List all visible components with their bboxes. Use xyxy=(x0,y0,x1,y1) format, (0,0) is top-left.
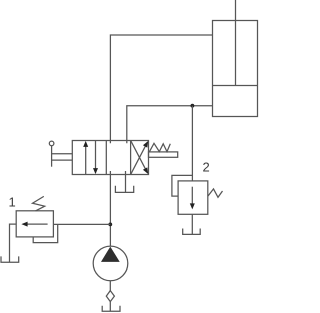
valve left square up arrow xyxy=(85,144,87,174)
relief valve 2 pilot line xyxy=(172,175,193,196)
tank under relief valve 2 xyxy=(183,229,201,235)
relief valve 1 outlet wire xyxy=(10,224,17,262)
tank under pump xyxy=(102,306,120,312)
pump triangle xyxy=(102,248,119,261)
cylinder rod xyxy=(235,0,237,86)
node junction to relief valve 1 xyxy=(108,223,112,227)
relief valve 1 pilot line xyxy=(33,224,58,242)
valve crossed arrows (X) xyxy=(131,145,146,174)
valve divider right xyxy=(130,141,132,175)
filter diamond xyxy=(106,291,114,302)
spring return zigzag xyxy=(150,143,171,151)
cylinder barrel xyxy=(213,21,258,117)
tank under relief valve 1 xyxy=(1,256,19,262)
relief valve 1 spring xyxy=(33,196,45,211)
cylinder piston xyxy=(213,85,258,87)
relief valve 1 arrow xyxy=(25,223,48,225)
svg-text:2: 2 xyxy=(203,160,210,175)
pump circle xyxy=(93,246,128,281)
wire valve-A to cylinder top port xyxy=(110,35,212,143)
lever actuator circle xyxy=(49,141,54,146)
wire junction down to relief valve 2 xyxy=(191,106,193,181)
wire P-port to pump xyxy=(109,171,111,246)
wire filter to tank xyxy=(109,302,111,312)
relief valve 2 spring xyxy=(208,189,223,197)
relief valve 2 body xyxy=(178,181,208,214)
lever shaft xyxy=(51,146,53,167)
valve body outline xyxy=(72,141,148,175)
wire pump to filter xyxy=(109,281,111,291)
relief valve 2 arrow xyxy=(191,187,193,206)
relief valve 1 body xyxy=(16,211,53,237)
wire junction to relief valve 1 xyxy=(53,223,110,225)
valve left square down arrow xyxy=(95,141,97,171)
svg-text:1: 1 xyxy=(9,195,16,210)
spring return plunger xyxy=(149,152,178,157)
relief valve 2 outlet wire xyxy=(191,214,193,234)
node junction to relief valve 2 xyxy=(191,104,195,108)
tank under valve xyxy=(115,186,133,193)
valve divider left xyxy=(105,141,107,175)
wire valve-B to cylinder bottom port xyxy=(127,106,213,144)
valve T-port to tank xyxy=(125,171,127,192)
lever rod to valve xyxy=(52,153,73,155)
